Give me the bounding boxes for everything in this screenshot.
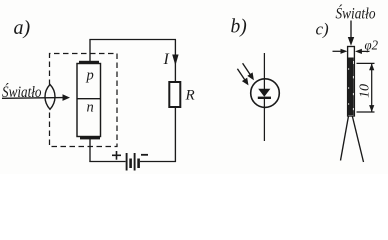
wire: light arrow into lens — [2, 94, 70, 101]
current arrow I — [172, 55, 178, 66]
photodiode symbol circle — [251, 79, 280, 108]
photodiode p-n body — [77, 64, 101, 137]
svg-text:φ2: φ2 — [365, 39, 379, 54]
dimension 10 extension lines — [357, 63, 375, 112]
dimension phi2 right arrow — [355, 49, 370, 54]
rod active dark layer — [348, 58, 354, 116]
electrode bottom — [80, 136, 100, 139]
wire: right vertical — [174, 40, 176, 163]
wire: cathode down — [89, 139, 91, 162]
label - terminal — [141, 154, 148, 156]
battery B1 — [127, 153, 140, 171]
dashed enclosure box — [50, 54, 118, 147]
label a) — [14, 17, 31, 39]
light arrow 2 into symbol — [237, 69, 248, 86]
label 10 — [358, 84, 373, 98]
light arrow 1 into symbol — [243, 63, 254, 80]
svg-text:a): a) — [14, 17, 31, 39]
wire: anode up — [89, 40, 91, 62]
electrode top — [79, 61, 99, 64]
wire: top horizontal — [89, 39, 176, 41]
wire: bottom left to battery — [89, 161, 125, 163]
svg-text:R: R — [185, 88, 195, 104]
wire: photodiode symbol top lead — [263, 53, 265, 79]
node: Swiatlo label (a) — [2, 82, 42, 101]
label n region — [87, 100, 94, 116]
label c) — [316, 20, 330, 39]
label I — [163, 51, 170, 68]
label p region — [86, 68, 94, 84]
svg-text:10: 10 — [358, 84, 373, 98]
resistor R — [169, 82, 180, 107]
label + terminal — [112, 151, 121, 160]
wire: light arrow down — [348, 21, 354, 46]
svg-text:n: n — [87, 100, 94, 116]
wire: battery to bottom right — [140, 161, 176, 163]
lens on enclosure edge — [45, 85, 55, 110]
dimension 10 line with arrows — [369, 63, 374, 112]
svg-text:b): b) — [231, 17, 247, 38]
label R — [185, 88, 195, 104]
dimension phi2 left arrow — [333, 49, 348, 54]
svg-text:Światło: Światło — [336, 4, 376, 23]
node: Swiatlo label (c) — [336, 4, 376, 23]
diode triangle (anode) — [258, 79, 270, 97]
svg-text:I: I — [163, 51, 170, 68]
label phi2 — [365, 39, 379, 54]
svg-text:c): c) — [316, 20, 330, 39]
label b) — [231, 17, 247, 38]
wire: photodiode symbol bottom lead — [263, 99, 265, 141]
photoresistor rod body — [348, 47, 355, 117]
svg-text:p: p — [86, 68, 94, 84]
lead left — [341, 116, 349, 161]
diode cathode bar — [258, 97, 271, 99]
lead right — [352, 116, 363, 162]
